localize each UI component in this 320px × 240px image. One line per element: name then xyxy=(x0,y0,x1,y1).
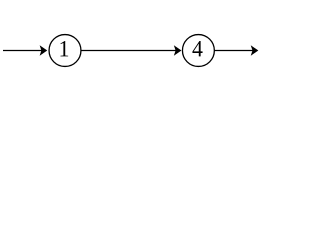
arrowhead into node 1 xyxy=(40,46,46,54)
wire: incoming arrow shaft (left edge to node 1) xyxy=(3,50,43,52)
wire: transition shaft (node 1 to node 4) xyxy=(81,50,177,52)
arrowhead into node 4 xyxy=(175,46,181,54)
label 1 xyxy=(60,41,68,56)
wire: outgoing arrow shaft (node 4 to right) xyxy=(214,50,253,52)
node 1 (state circle) xyxy=(49,35,81,67)
node 4 (state circle) xyxy=(182,35,214,67)
label 4 xyxy=(192,41,202,56)
arrowhead outgoing right xyxy=(252,46,258,54)
